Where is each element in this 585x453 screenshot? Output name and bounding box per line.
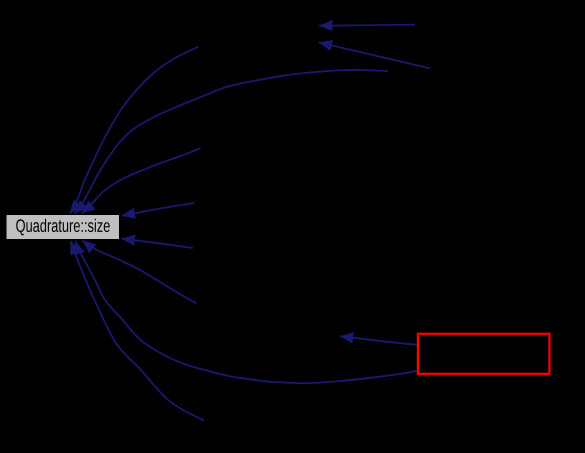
wire: edge R1 red node to invisible node bbox=[340, 336, 417, 345]
wire: edge A into Quadrature::size right bbox=[122, 203, 195, 216]
wire: edge B into Quadrature::size right bbox=[122, 239, 194, 248]
wire: edge E2 caller into invisible node bbox=[319, 42, 430, 68]
wire: edge C1 long flat curve into Quadrature::size top bbox=[75, 70, 389, 214]
wire: edge K1 steep curve into Quadrature::size top bbox=[70, 47, 199, 214]
wire: edge E1 top caller into invisible node bbox=[319, 25, 415, 26]
node: truncated caller (red border) bbox=[418, 334, 550, 374]
node Quadrature::size (current node, gray) bbox=[7, 215, 120, 239]
wire: edge E7 into Quadrature::size bottom bbox=[82, 241, 196, 304]
wire: edge 8a steep curve into Quadrature::size bottom bbox=[71, 241, 205, 421]
wire: edge R2 long curve from red node into Quadrature::size bottom bbox=[76, 241, 417, 383]
wire: edge E4 into Quadrature::size top bbox=[82, 148, 201, 213]
